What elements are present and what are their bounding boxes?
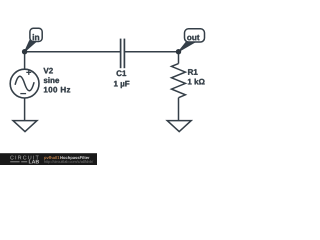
node in junction dot [22,49,27,54]
watermark bar [0,153,97,165]
resistor R1 [172,64,186,98]
watermark title name [60,156,89,160]
wire: V2 bottom to left ground [24,98,26,121]
node in flag box [30,28,42,41]
label C1 value [114,81,129,88]
watermark logo wire motif [10,161,27,163]
wire: C1 right plate to out node [125,51,179,53]
node in label [33,34,39,40]
wire: R1 bottom to right ground [178,98,180,121]
voltage source V2 [10,69,39,98]
label R1 value [188,79,205,85]
node out flag box [185,29,205,42]
label C1 name [117,70,127,76]
ground left [13,121,37,132]
watermark logo CIRCUIT [10,156,38,160]
wire: out node down to R1 top [178,52,180,64]
wire: in node down to V2 top [24,52,26,70]
label V2 frequency [44,87,70,93]
watermark logo LAB [29,160,39,164]
node out label [187,35,199,40]
watermark title user [44,156,61,160]
node in flag pointer [25,41,37,52]
label V2 type [44,77,59,83]
node out junction dot [176,49,181,54]
label V2 name [43,68,52,74]
capacitor C1 [121,39,125,69]
watermark url [44,160,93,164]
ground right [167,121,191,132]
label R1 name [188,69,197,75]
wire: in node to C1 left plate [25,51,120,53]
node out flag pointer [179,41,196,52]
